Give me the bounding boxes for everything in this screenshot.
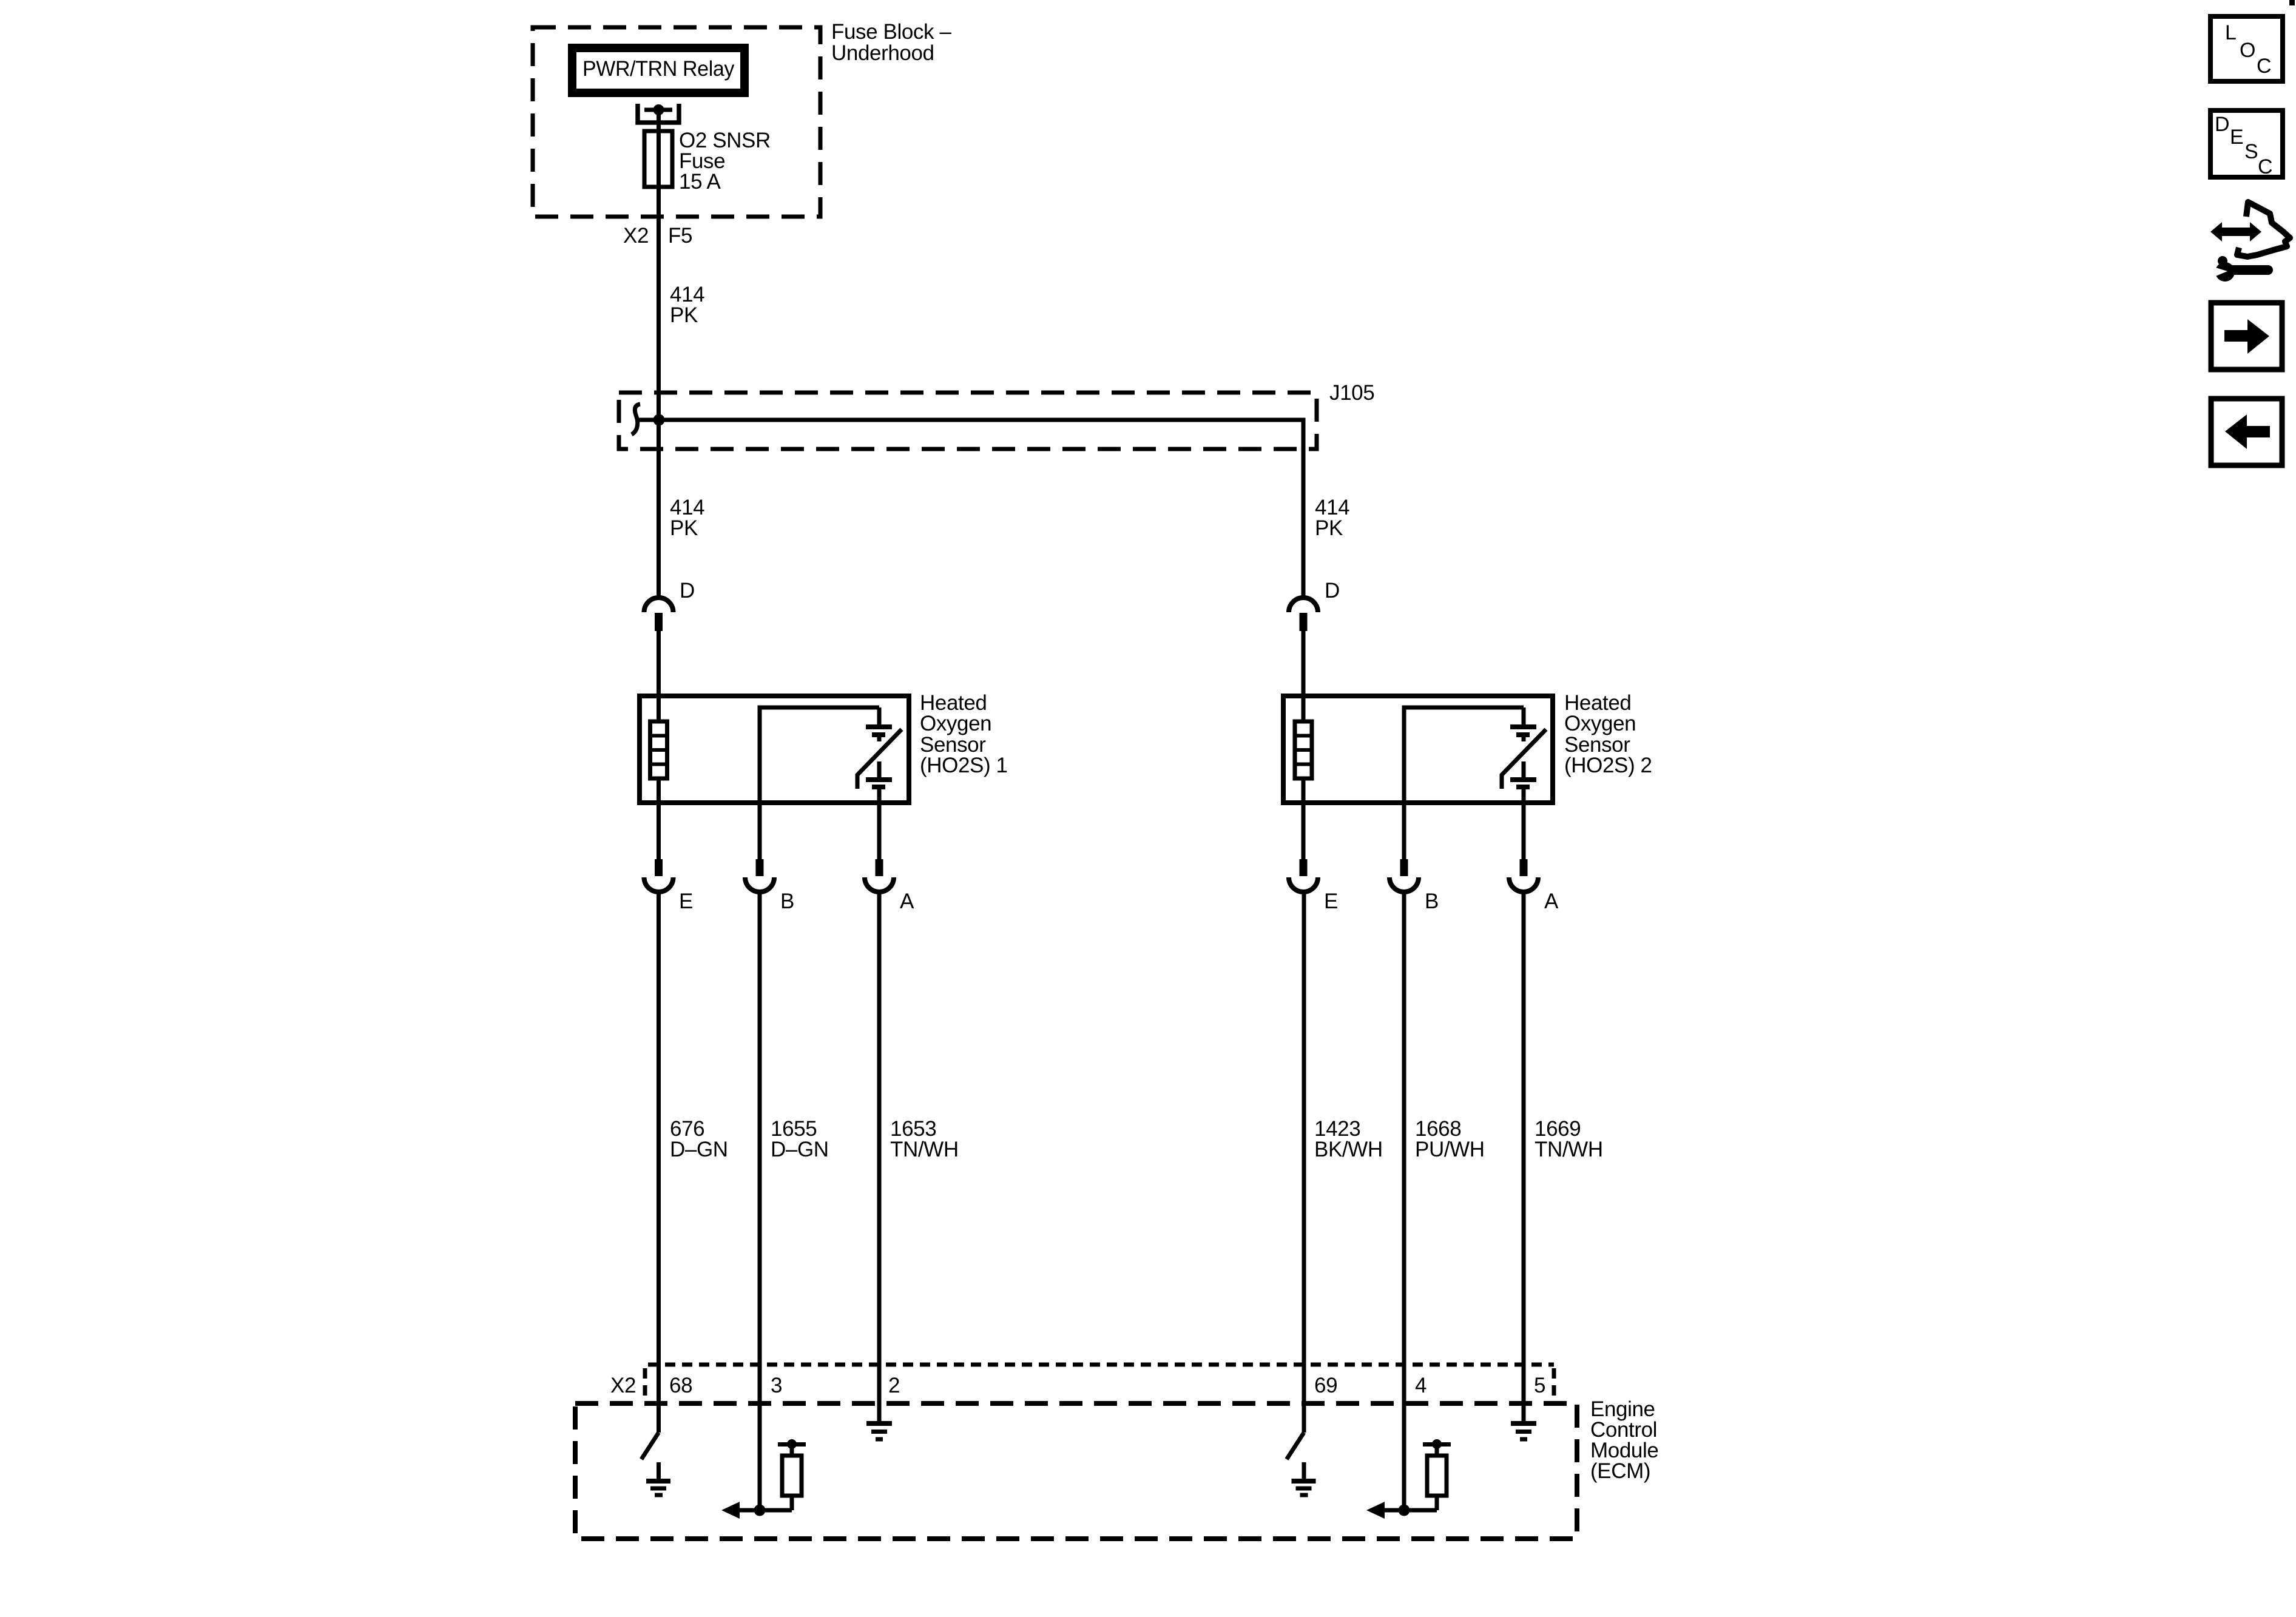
svg-text:A: A	[1544, 890, 1559, 913]
junction dot J105	[653, 414, 665, 426]
label: 1423 BK/WH	[1314, 1117, 1383, 1161]
svg-text:B: B	[780, 890, 794, 913]
fuse O2 SNSR 15A body	[644, 131, 672, 187]
svg-text:B: B	[1425, 890, 1439, 913]
wire heater to pin E (right)	[1302, 778, 1306, 859]
svg-text:Oxygen: Oxygen	[920, 712, 991, 735]
ECM connector X2 (dotted line)	[648, 1363, 1554, 1367]
ground (pin 2)	[866, 1423, 892, 1439]
internal wire B (HO2S 1)	[760, 707, 879, 859]
page corner mark	[2289, 0, 2295, 5]
svg-text:Fuse Block –: Fuse Block –	[831, 20, 951, 44]
connector D (left): socket arc	[644, 598, 674, 612]
svg-text:D: D	[680, 579, 695, 603]
label: 676 D-GN	[670, 1117, 728, 1161]
HO2S 2 box	[1283, 696, 1553, 803]
icon: LOC box	[2210, 16, 2283, 81]
connector pin E (left)	[644, 859, 674, 892]
wire D to right sensor	[1302, 631, 1306, 721]
switch blade pin 68	[641, 1433, 659, 1459]
heater resistor (HO2S 1)	[650, 721, 667, 778]
wire 1668 PU/WH	[1402, 892, 1406, 1510]
svg-text:69: 69	[1314, 1374, 1337, 1397]
svg-text:15 A: 15 A	[679, 170, 721, 194]
label: Fuse Block - Underhood	[831, 20, 951, 65]
svg-text:(HO2S) 2: (HO2S) 2	[1564, 754, 1652, 777]
pull-up resistor (pin 3)	[778, 1439, 806, 1510]
svg-text:S: S	[2244, 140, 2258, 163]
ground (pin 68)	[646, 1462, 670, 1495]
svg-text:Underhood: Underhood	[831, 41, 934, 65]
connector pin A (left)	[865, 859, 894, 892]
svg-text:X2: X2	[610, 1374, 636, 1397]
connector pin E (right)	[1289, 859, 1318, 892]
wire D to left sensor	[657, 631, 661, 721]
label: Heated Oxygen Sensor (HO2S) 1	[920, 691, 1008, 777]
svg-text:3: 3	[771, 1374, 782, 1397]
icon: connector repair (double arrow)	[2210, 222, 2261, 241]
label: 414 PK (left branch)	[670, 496, 704, 540]
svg-text:2: 2	[888, 1374, 900, 1397]
svg-text:(HO2S) 1: (HO2S) 1	[920, 754, 1008, 777]
pull-up resistor (pin 4)	[1423, 1439, 1451, 1510]
label: 414 PK (upper)	[670, 283, 704, 327]
connector D (right): pin	[1300, 613, 1308, 631]
label: 1668 PU/WH	[1415, 1117, 1485, 1161]
svg-text:TN/WH: TN/WH	[1535, 1138, 1603, 1161]
icon: connector repair (terminal outline)	[2237, 202, 2290, 257]
wire 1669 TN/WH	[1522, 892, 1526, 1422]
label: Engine Control Module (ECM)	[1590, 1397, 1658, 1483]
HO2S 1 box	[640, 696, 909, 803]
wire 1423 BK/WH	[1302, 892, 1306, 1433]
svg-text:F5: F5	[668, 224, 692, 248]
wire 1655 D-GN	[758, 892, 762, 1510]
svg-text:Oxygen: Oxygen	[1564, 712, 1636, 735]
connector pin A (right)	[1509, 859, 1538, 892]
svg-text:X2: X2	[623, 224, 649, 248]
svg-text:D–GN: D–GN	[670, 1138, 728, 1161]
label: X2 F5 (fuse block pins)	[623, 224, 692, 248]
splice clip symbol	[632, 404, 640, 434]
ECM box (dashed)	[575, 1403, 1577, 1539]
fuse block - underhood (dashed box)	[533, 27, 820, 217]
svg-text:68: 68	[669, 1374, 692, 1397]
svg-text:D–GN: D–GN	[771, 1138, 829, 1161]
icon: back arrow box	[2211, 399, 2282, 465]
label: 1653 TN/WH	[890, 1117, 959, 1161]
svg-text:E: E	[1324, 890, 1338, 913]
internal wire B (HO2S 2)	[1404, 707, 1524, 859]
connector D (left): pin	[655, 613, 663, 631]
icon: forward arrow box	[2211, 303, 2282, 370]
svg-text:PWR/TRN Relay: PWR/TRN Relay	[582, 57, 735, 81]
switch blade pin 69	[1287, 1433, 1305, 1459]
ground (pin 5)	[1511, 1423, 1536, 1439]
sensor cell (HO2S 1)	[857, 707, 902, 789]
svg-text:5: 5	[1534, 1374, 1545, 1397]
wire splice to junction	[636, 418, 659, 422]
svg-text:PK: PK	[1315, 516, 1343, 540]
internal bus arrow (pin 3)	[721, 1502, 792, 1519]
svg-text:L: L	[2225, 21, 2237, 44]
svg-text:4: 4	[1415, 1374, 1427, 1397]
relay terminal bracket	[638, 104, 679, 123]
connector pin B (left)	[745, 859, 774, 892]
svg-text:C: C	[2258, 155, 2272, 178]
svg-text:TN/WH: TN/WH	[890, 1138, 959, 1161]
relay contact bar	[644, 108, 672, 112]
svg-text:O: O	[2240, 39, 2255, 62]
ECM connector right stub	[1552, 1368, 1556, 1400]
svg-text:E: E	[679, 890, 693, 913]
wire relay through fuse down to J105	[657, 110, 661, 598]
svg-text:D: D	[2215, 113, 2229, 136]
wire 1653 TN/WH	[877, 892, 882, 1422]
internal bus arrow (pin 4)	[1366, 1502, 1437, 1519]
wire sensor cell to pin A (left)	[877, 787, 882, 859]
label: 1655 D-GN	[771, 1117, 829, 1161]
svg-text:(ECM): (ECM)	[1590, 1459, 1650, 1483]
icon: DESC box	[2210, 110, 2283, 178]
wire 676 D-GN	[657, 892, 661, 1433]
splice J105 (dashed box)	[619, 393, 1317, 449]
wire J105 horizontal to right branch	[659, 420, 1303, 598]
svg-text:A: A	[900, 890, 914, 913]
sensor cell (HO2S 2)	[1502, 707, 1546, 789]
svg-text:PK: PK	[670, 516, 698, 540]
connector pin B (right)	[1389, 859, 1419, 892]
icon: connector repair (wrench)	[2212, 256, 2273, 282]
junction dot at relay output	[653, 104, 664, 115]
label: O2 SNSR Fuse 15 A	[679, 129, 771, 194]
svg-text:BK/WH: BK/WH	[1314, 1138, 1383, 1161]
svg-text:C: C	[2257, 55, 2271, 78]
wire sensor cell to pin A (right)	[1522, 787, 1526, 859]
relay PWR/TRN Relay box	[572, 48, 745, 93]
svg-text:E: E	[2230, 126, 2243, 149]
heater resistor (HO2S 2)	[1295, 721, 1312, 778]
svg-text:PK: PK	[670, 303, 698, 327]
label: 414 PK (right branch)	[1315, 496, 1349, 540]
ground (pin 69)	[1292, 1462, 1316, 1495]
svg-text:PU/WH: PU/WH	[1415, 1138, 1485, 1161]
label: 1669 TN/WH	[1535, 1117, 1603, 1161]
svg-text:D: D	[1325, 579, 1340, 603]
svg-text:J105: J105	[1329, 381, 1374, 405]
connector D (right): socket arc	[1289, 598, 1318, 612]
label: Heated Oxygen Sensor (HO2S) 2	[1564, 691, 1652, 777]
wire heater to pin E (left)	[657, 778, 661, 859]
ECM connector left stub	[643, 1368, 647, 1400]
